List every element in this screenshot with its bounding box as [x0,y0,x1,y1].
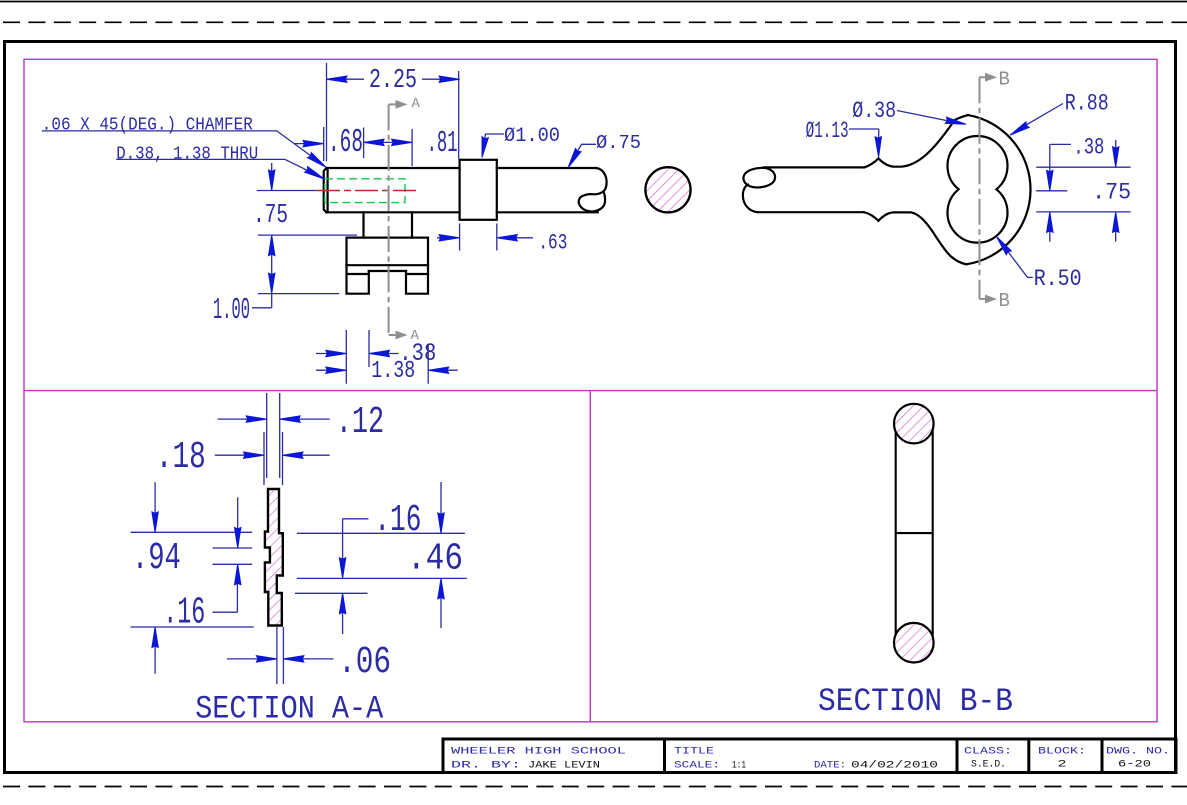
svg-text:1.38: 1.38 [371,358,415,385]
mid-step arrow tails [237,497,239,531]
arrow leader O.75 [565,148,581,169]
arrow leader O1.13 [875,137,882,158]
arrow dim .46 up [438,578,444,599]
svg-text:1.00: 1.00 [213,293,250,328]
svg-text:SECTION A-A: SECTION A-A [195,691,383,728]
ext lines above profile (.12 pair / .18 pair) [264,393,283,485]
svg-text:R.88: R.88 [1065,90,1109,117]
.06 ext lines below [277,627,284,684]
arrow dim 2.25 left [327,76,348,82]
leader R.88 [1014,104,1063,133]
left 1.00 arrow tails [271,163,273,276]
arrow dim .12 right [280,416,301,422]
collar boss Ø1.00 [460,160,497,220]
ext 2.25 left / .68 [324,63,327,161]
bit notch top [369,270,406,272]
ext stem right above shaft [411,129,413,166]
leader Ø1.13 [849,129,879,141]
shaft top edge [764,166,864,168]
arrow dim .06 left [256,656,277,662]
arrow dim .38 bow centre down [1047,170,1053,191]
bow outer circle R.88 [966,115,1030,264]
arrow leader O.38 [945,117,966,127]
arrow dim .68 left [303,140,324,146]
ext 2.25 right [458,71,460,159]
svg-text:6-20: 6-20 [1118,759,1151,771]
shaft bottom edge [326,211,597,213]
arrow leader O1.00 [479,137,489,158]
red centerline of hole [317,190,419,192]
svg-text:Ø.38: Ø.38 [852,98,896,125]
svg-text:R.50: R.50 [1034,266,1082,293]
svg-text:.06 X 45(DEG.) CHAMFER: .06 X 45(DEG.) CHAMFER [42,115,253,136]
arrow dim .16 right up [339,593,345,614]
svg-text:SCALE:: SCALE: [674,760,720,772]
svg-text:.38: .38 [1073,135,1104,162]
arrow dim .38 left [326,350,347,356]
bottom neck: sharp valley point and fillet sweeping into bow [864,212,967,264]
.06 row tails [227,658,334,660]
.38/1.38 tails [316,354,458,371]
svg-text:B: B [999,290,1010,312]
svg-text:04/02/2010: 04/02/2010 [851,760,938,772]
svg-text:.63: .63 [538,231,567,256]
arrow dim .81 right [392,139,413,145]
svg-text:DATE:: DATE: [814,760,846,772]
arrow dim .16 right down [339,558,345,579]
svg-text:.94: .94 [132,537,181,580]
leader Ø.38 [897,111,961,124]
ext .38 / 1.38 below bit [346,330,428,384]
title block text [451,746,1170,772]
svg-text:.16: .16 [374,499,421,542]
ring tangent lines [896,424,933,643]
arrow dim .94 up [152,627,158,648]
dim tails .63 [437,237,533,239]
section arrow A top [396,100,408,109]
svg-text:DWG. NO.: DWG. NO. [1106,746,1170,758]
svg-text:S.E.D.: S.E.D. [971,759,1006,771]
bit shoulder lines [347,273,429,275]
magenta drawing area frame [24,59,1157,722]
svg-text:1:1: 1:1 [732,760,746,772]
arrow dim 1.00 up [269,235,275,256]
svg-text:.75: .75 [253,201,288,231]
arrow dim .46 down [438,513,444,534]
section line B-B (gray dash-dot vertical) [980,77,987,299]
svg-text:D.38, 1.38 THRU: D.38, 1.38 THRU [116,143,258,164]
equals lines (mid step) [213,548,253,564]
top neck: sharp peak and fillet sweeping into bow [864,115,968,167]
left dim line y293.6 [258,293,340,295]
leader chamfer note [42,131,322,164]
dimension texts, side view [42,66,641,385]
section A-A profile (hatched) [265,489,283,626]
top hatched circle [894,404,934,444]
title block frame [443,739,1176,773]
arrow dim .75 bow up left [1047,212,1053,233]
leader R.50 [1000,241,1033,278]
svg-text:.68: .68 [328,124,363,161]
svg-text:WHEELER HIGH SCHOOL: WHEELER HIGH SCHOOL [451,746,626,758]
svg-text:CLASS:: CLASS: [964,746,1012,758]
bottom hatched circle [894,623,934,663]
leader Ø1.00 [483,134,504,153]
line A y532.8 [131,532,465,533]
rounded tip with curl [579,168,607,211]
.18 row tails [215,454,330,456]
line B y578.4 [297,577,467,579]
svg-text:DR. BY:: DR. BY: [451,760,521,772]
section arrow B top [985,73,997,82]
shaft top edge [326,167,596,169]
arrow dim .12 left [246,416,267,422]
bit block bottom line [347,264,429,266]
magenta vertical divider [589,391,591,722]
arrow dim 2.25 right [439,76,460,82]
page bottom dashed line [3,786,1187,788]
ext .63 below boss [460,224,497,251]
arrow dim 1.38 left [326,367,347,373]
.16 right hook and arrow tail [343,519,369,634]
svg-text:BLOCK:: BLOCK: [1038,746,1086,758]
.38 hook and arrow tails [1050,140,1116,172]
bottom line y627 [131,626,254,628]
arrow dim .16 step up [235,564,241,585]
hook for 1.00 text [252,294,272,308]
blue dim lines, end view [849,104,1131,278]
svg-text:.16: .16 [163,592,205,635]
right dim lines [1036,167,1130,212]
dimension texts section A-A [132,401,463,684]
hidden hole (green dashed) D.38 1.38 THRU [325,179,405,203]
bit block [347,238,429,266]
dim line 2.25 [327,78,460,80]
leader thru note [116,159,320,176]
arrow dim .63 left [439,235,460,241]
arrow dim .16 step down [235,528,241,549]
section arrow A bottom [396,331,408,340]
arrow dim .38 bow down [1113,147,1119,168]
arrow leader thru hole [305,167,326,182]
svg-text:.75: .75 [1092,179,1131,206]
.94 arrow tails [154,482,156,673]
ring mid line [896,532,933,534]
arrow dim .75 bow up right [1113,212,1119,233]
dim tails .68/.81 row [294,142,407,143]
arrow dim 1.00 down [269,273,275,294]
magenta horizontal divider [24,390,1157,392]
blue lines section A-A [131,393,467,684]
svg-text:2.25: 2.25 [369,66,417,96]
arrow dim .06 right [283,656,304,662]
arrow dim .75 down [269,170,275,191]
arrow dim .18 left [244,452,265,458]
chamfered left end face [324,168,328,212]
arrow leader R.88 [1008,122,1029,138]
arrow leader R.50 [994,235,1011,255]
arrow dim .63 right [497,235,518,241]
svg-text:.12: .12 [336,401,385,444]
section arrow B bottom [985,295,997,304]
svg-text:A: A [412,96,421,112]
arrow leader chamfer [308,153,328,170]
section line A-A (gray dash-dot vertical) [389,104,397,335]
svg-text:Ø1.13: Ø1.13 [806,118,849,144]
ext stem left above shaft [363,128,365,159]
bow inner figure-8 hole R.50 [948,136,1008,243]
arrow dim .18 right [283,452,304,458]
line C y593.3 [295,592,368,594]
svg-text:.06: .06 [338,641,391,684]
.16 left hook [213,566,238,612]
svg-text:Ø.75: Ø.75 [596,132,641,154]
svg-text:2: 2 [1058,759,1067,771]
svg-text:SECTION B-B: SECTION B-B [818,683,1013,720]
leader Ø.75 [571,144,597,163]
svg-text:TITLE: TITLE [674,746,714,758]
svg-text:.81: .81 [427,126,458,161]
dimension texts, end view [806,90,1132,293]
bit outer walls to legs [347,265,429,294]
svg-text:.46: .46 [407,538,463,581]
svg-text:.18: .18 [156,436,206,479]
arrow dim .81 left [364,139,385,145]
.75 arrow tails [1050,230,1116,242]
svg-text:Ø1.00: Ø1.00 [504,125,560,148]
svg-text:JAKE LEVIN: JAKE LEVIN [528,760,600,772]
.12 row tails [218,418,330,420]
page top dashed line [3,21,1187,23]
blue extension lines, side view [42,63,596,384]
page top solid line [0,1,1187,3]
.46 arrow tails [440,482,442,628]
arrow dim 1.38 right [428,367,449,373]
rounded left tip with curl [743,185,758,213]
left dim line y235 [258,234,357,236]
bit stem [364,212,413,237]
arrow dim .94 down [152,512,158,533]
svg-text:B: B [999,69,1010,91]
left .75 dim line at centerline [257,190,317,192]
shaft bottom edge [758,211,864,213]
arrow dim .38 right [369,350,390,356]
